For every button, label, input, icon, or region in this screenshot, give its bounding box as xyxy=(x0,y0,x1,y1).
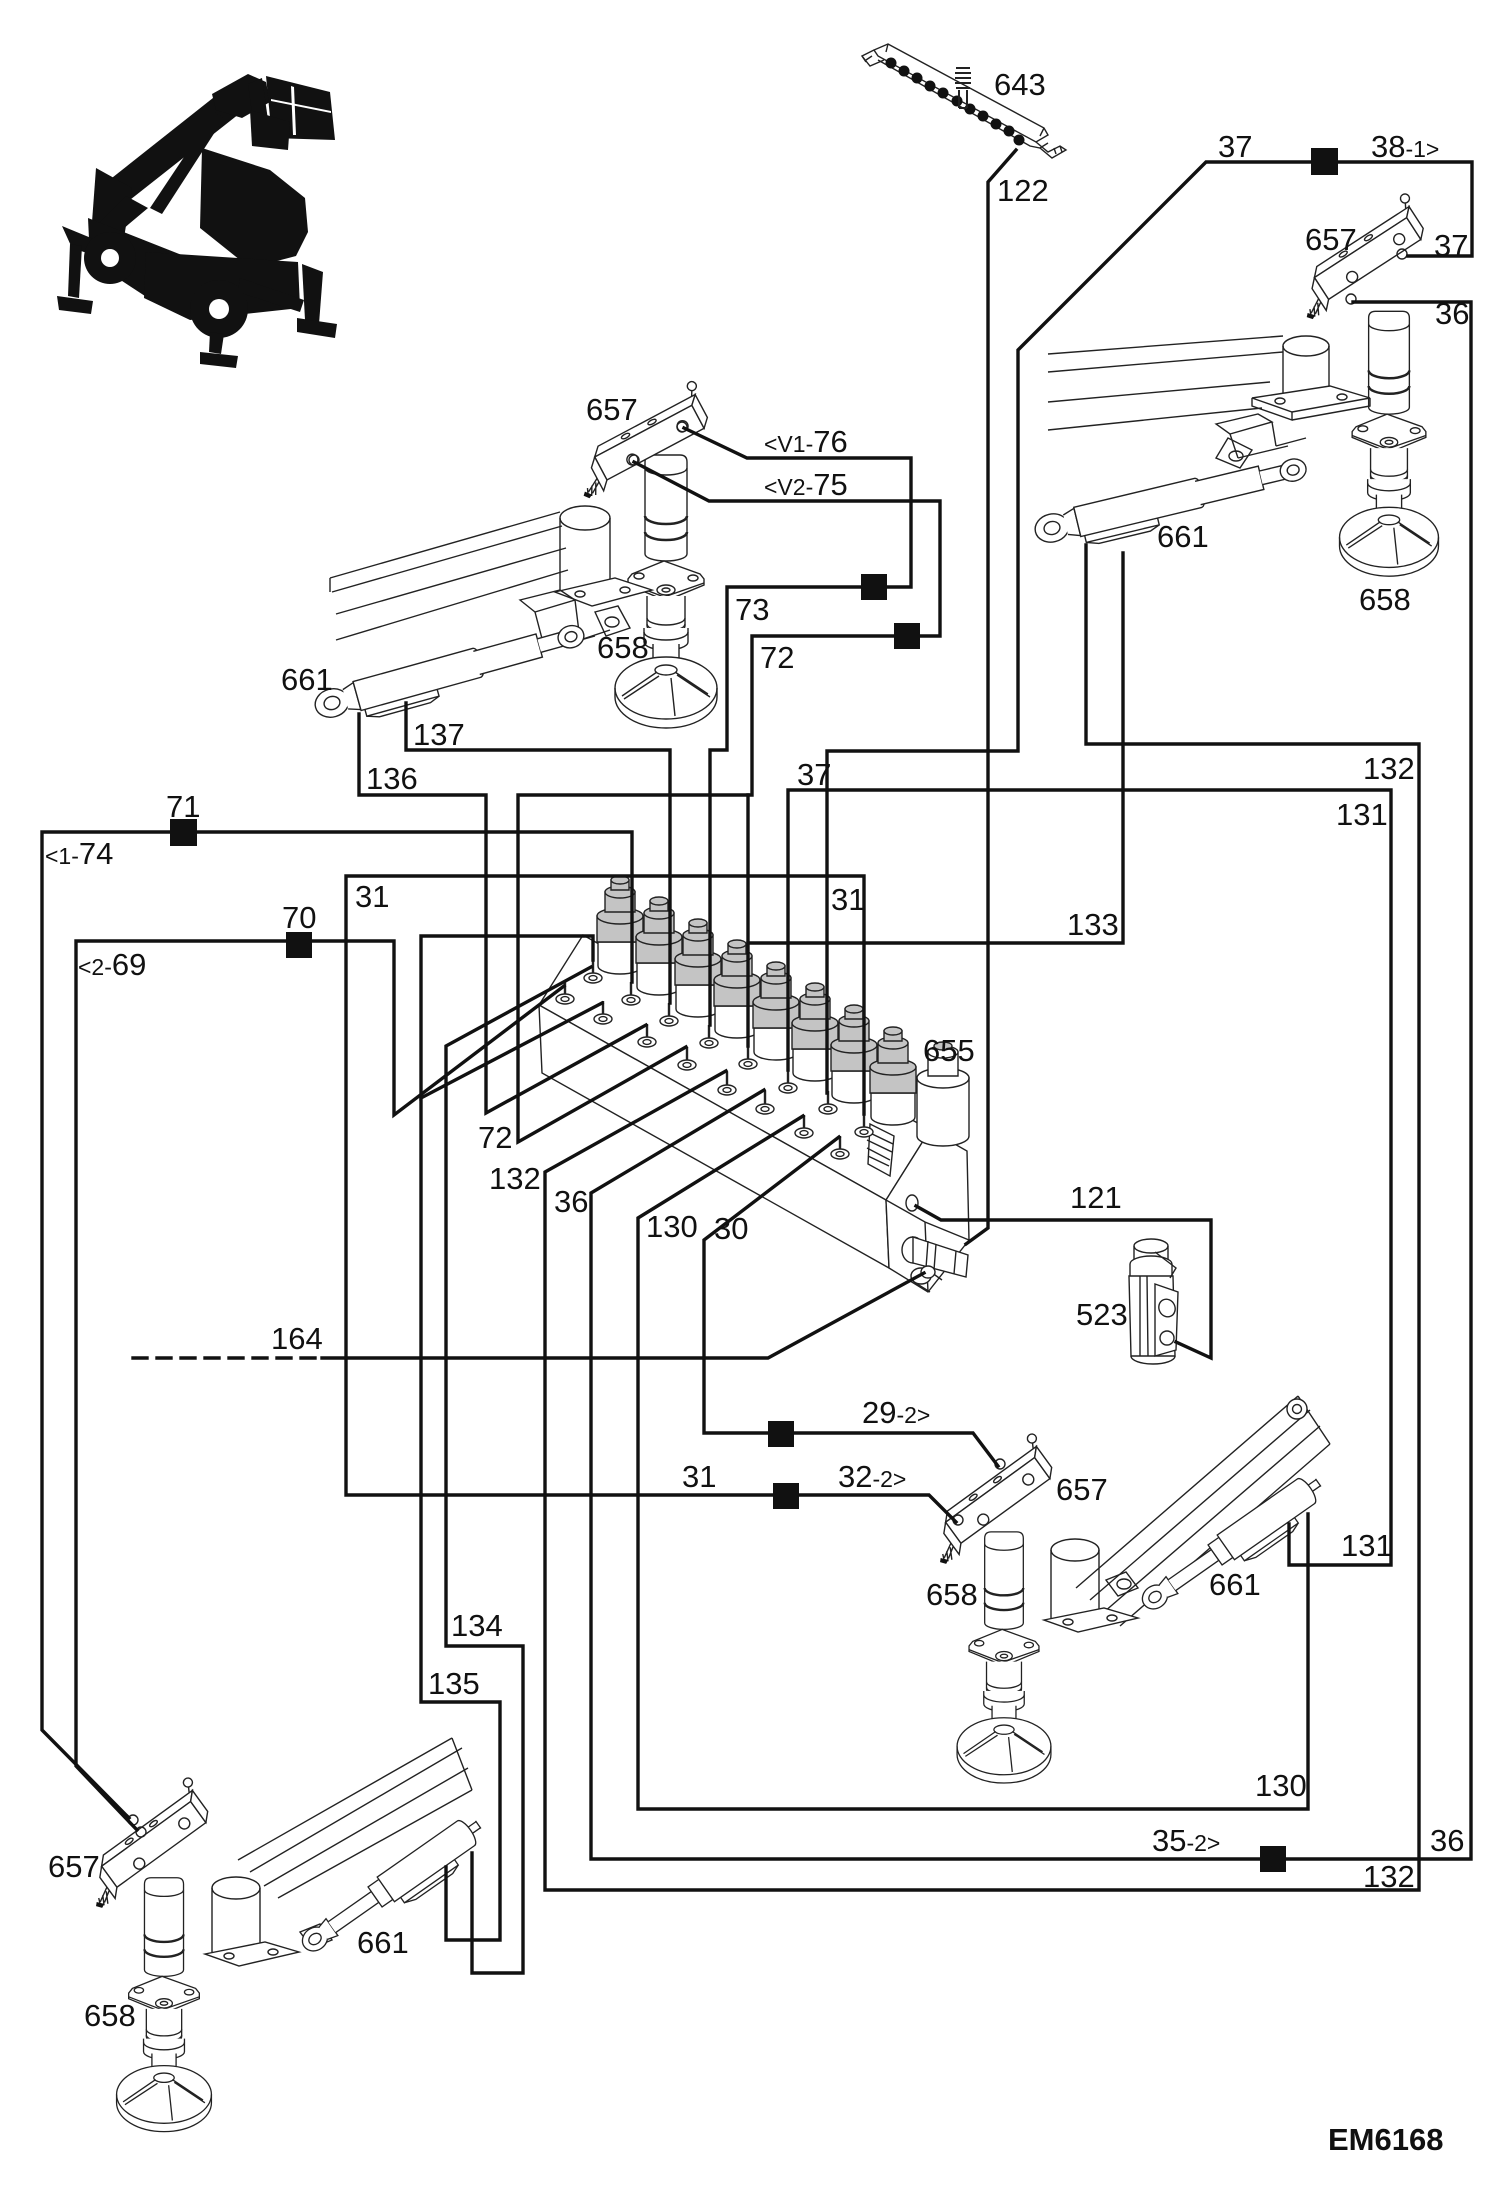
wire 37/38-1 top trunk xyxy=(827,162,1472,1093)
T-fitting bottom right xyxy=(902,1237,924,1263)
beam top-right xyxy=(1048,336,1370,468)
end valve 655 (white) xyxy=(917,1078,969,1146)
wire jumper A1-B2 xyxy=(421,936,602,1098)
svg-text:643: 643 xyxy=(994,67,1046,102)
svg-text:655: 655 xyxy=(923,1033,975,1068)
wire 72/75 (valve 657 top-middle V2 to manifold B4) xyxy=(518,462,940,1142)
svg-text:136: 136 xyxy=(366,761,418,796)
svg-text:134: 134 xyxy=(451,1608,503,1643)
body right faces xyxy=(886,1130,969,1292)
cylinder 661 middle-left xyxy=(312,619,591,733)
leg 658 top-right xyxy=(1340,311,1439,576)
leg 658 bottom-left xyxy=(117,1878,212,2132)
junction square 71 xyxy=(170,819,197,846)
wire 130 (manifold B7 to cyl bottom-right via bottom) xyxy=(638,1116,1308,1809)
cylinder 661 bottom-left xyxy=(296,1812,493,1967)
svg-text:132: 132 xyxy=(1363,1859,1415,1894)
wire 131 (cyl bottom-right to manifold A6) xyxy=(788,790,1391,1565)
svg-text:36: 36 xyxy=(1435,296,1469,331)
svg-text:31: 31 xyxy=(682,1459,716,1494)
svg-text:658: 658 xyxy=(926,1577,978,1612)
svg-text:37: 37 xyxy=(1218,129,1252,164)
junction square 72 xyxy=(894,623,920,649)
svg-text:657: 657 xyxy=(1056,1472,1108,1507)
svg-text:37: 37 xyxy=(797,757,831,792)
svg-text:72: 72 xyxy=(478,1120,512,1155)
svg-text:661: 661 xyxy=(357,1925,409,1960)
svg-text:31: 31 xyxy=(831,882,865,917)
svg-text:658: 658 xyxy=(597,630,649,665)
svg-text:36: 36 xyxy=(1430,1823,1464,1858)
wire 133 (cyl top-right to manifold A5) xyxy=(748,553,1123,943)
wire 31/32-2 (manifold A8 to valve 657 bottom-right) xyxy=(346,876,956,1522)
svg-text:30: 30 xyxy=(714,1211,748,1246)
wire 121 (manifold right port to valve 523) xyxy=(916,1206,1211,1358)
svg-text:135: 135 xyxy=(428,1666,480,1701)
junction square 70 xyxy=(286,932,312,958)
svg-text:657: 657 xyxy=(1305,222,1357,257)
wire 132 (cyl top-right to manifold B5 via bottom) xyxy=(545,545,1419,1890)
wire 122 (rail 643 to manifold T-fitting) xyxy=(966,150,1016,1244)
svg-text:121: 121 xyxy=(1070,1180,1122,1215)
svg-text:131: 131 xyxy=(1336,797,1388,832)
svg-text:130: 130 xyxy=(1255,1768,1307,1803)
beam middle-left xyxy=(330,506,652,650)
wire 135 (loop to cyl bottom-left) xyxy=(421,1098,500,1940)
svg-text:658: 658 xyxy=(1359,582,1411,617)
leg 658 bottom-right xyxy=(957,1532,1051,1783)
svg-text:658: 658 xyxy=(84,1998,136,2033)
solenoid coils row xyxy=(597,876,643,974)
svg-text:130: 130 xyxy=(646,1209,698,1244)
wire 133 drop to port A5 xyxy=(746,795,749,1046)
junction square 32-2 xyxy=(773,1483,799,1509)
cylinder 661 top-right xyxy=(1032,452,1312,557)
svg-text:73: 73 xyxy=(735,592,769,627)
svg-text:122: 122 xyxy=(997,173,1049,208)
junction square 73 xyxy=(861,574,887,600)
wire 71/74 (valve bottom-left to manifold A2) xyxy=(42,832,632,1818)
svg-text:70: 70 xyxy=(282,900,316,935)
wire 137 (cyl middle-left to manifold A3) xyxy=(406,703,670,1003)
svg-text:661: 661 xyxy=(1209,1567,1261,1602)
body top face xyxy=(539,935,930,1200)
valve 657 bottom-right xyxy=(910,1432,1065,1566)
beam bottom-left xyxy=(205,1738,472,1966)
svg-text:132: 132 xyxy=(1363,751,1415,786)
svg-text:72: 72 xyxy=(760,640,794,675)
svg-text:36: 36 xyxy=(554,1184,588,1219)
junction square 38-1 xyxy=(1311,148,1338,175)
svg-text:31: 31 xyxy=(355,879,389,914)
wire 164 solid (to manifold lower fitting) xyxy=(322,1273,924,1358)
valve 657 bottom-left xyxy=(66,1776,221,1910)
svg-text:661: 661 xyxy=(1157,519,1209,554)
relief valve stub xyxy=(868,1124,894,1176)
wire 29-2/30 (manifold B8 to valve 657 bottom-right) xyxy=(704,1137,998,1466)
svg-text:657: 657 xyxy=(48,1849,100,1884)
svg-text:EM6168: EM6168 xyxy=(1328,2122,1443,2157)
svg-text:137: 137 xyxy=(413,717,465,752)
valve 657 top-right xyxy=(1279,192,1436,321)
beam bottom-right xyxy=(1044,1396,1330,1632)
right face port (121) xyxy=(906,1195,918,1211)
wire 70/69 (valve bottom-left to manifold B1) xyxy=(76,941,564,1830)
svg-text:132: 132 xyxy=(489,1161,541,1196)
svg-text:133: 133 xyxy=(1067,907,1119,942)
wire 134 (loop to cyl bottom-left) xyxy=(446,967,591,1973)
svg-text:657: 657 xyxy=(586,392,638,427)
wire 136 (cyl middle-left to manifold B3) xyxy=(359,714,646,1113)
svg-text:71: 71 xyxy=(166,789,200,824)
svg-text:523: 523 xyxy=(1076,1297,1128,1332)
svg-text:131: 131 xyxy=(1341,1528,1393,1563)
junction square 29-2 xyxy=(768,1421,794,1447)
leg 658 top-middle xyxy=(615,455,717,728)
wire 164 dashed xyxy=(133,1356,322,1359)
junction square 35-2 xyxy=(1260,1846,1286,1872)
lower port (164) xyxy=(921,1266,935,1278)
svg-text:661: 661 xyxy=(281,662,333,697)
cylinder 661 bottom-right xyxy=(1136,1470,1333,1625)
svg-text:37: 37 xyxy=(1434,228,1468,263)
wire 73/76 (valve 657 top-middle V1 to manifold A4) xyxy=(684,428,911,1025)
svg-text:164: 164 xyxy=(271,1321,323,1356)
body front face xyxy=(539,1005,889,1268)
wire 36 right loop (valve 657 top-right to manifold via bottom) xyxy=(591,302,1471,1859)
